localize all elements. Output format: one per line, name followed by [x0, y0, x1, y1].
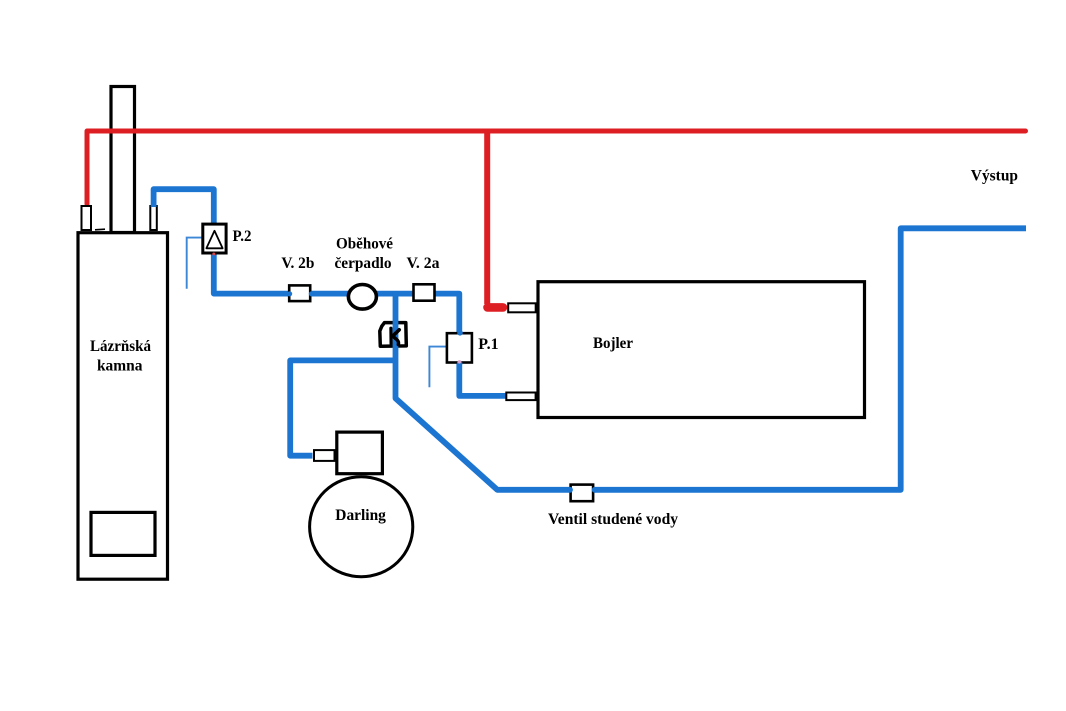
- svg-text:Ventil studené vody: Ventil studené vody: [548, 511, 678, 528]
- svg-text:Darling: Darling: [335, 507, 386, 524]
- svg-text:Lázrňská: Lázrňská: [90, 338, 151, 355]
- svg-text:Výstup: Výstup: [971, 168, 1018, 185]
- svg-text:čerpadlo: čerpadlo: [335, 255, 392, 272]
- svg-text:Oběhové: Oběhové: [336, 236, 393, 253]
- svg-text:P.1: P.1: [478, 336, 498, 353]
- svg-text:Bojler: Bojler: [593, 335, 633, 352]
- svg-text:V. 2a: V. 2a: [407, 255, 440, 272]
- svg-text:kamna: kamna: [97, 358, 143, 375]
- svg-text:P.2: P.2: [233, 228, 252, 245]
- svg-text:V. 2b: V. 2b: [281, 255, 314, 272]
